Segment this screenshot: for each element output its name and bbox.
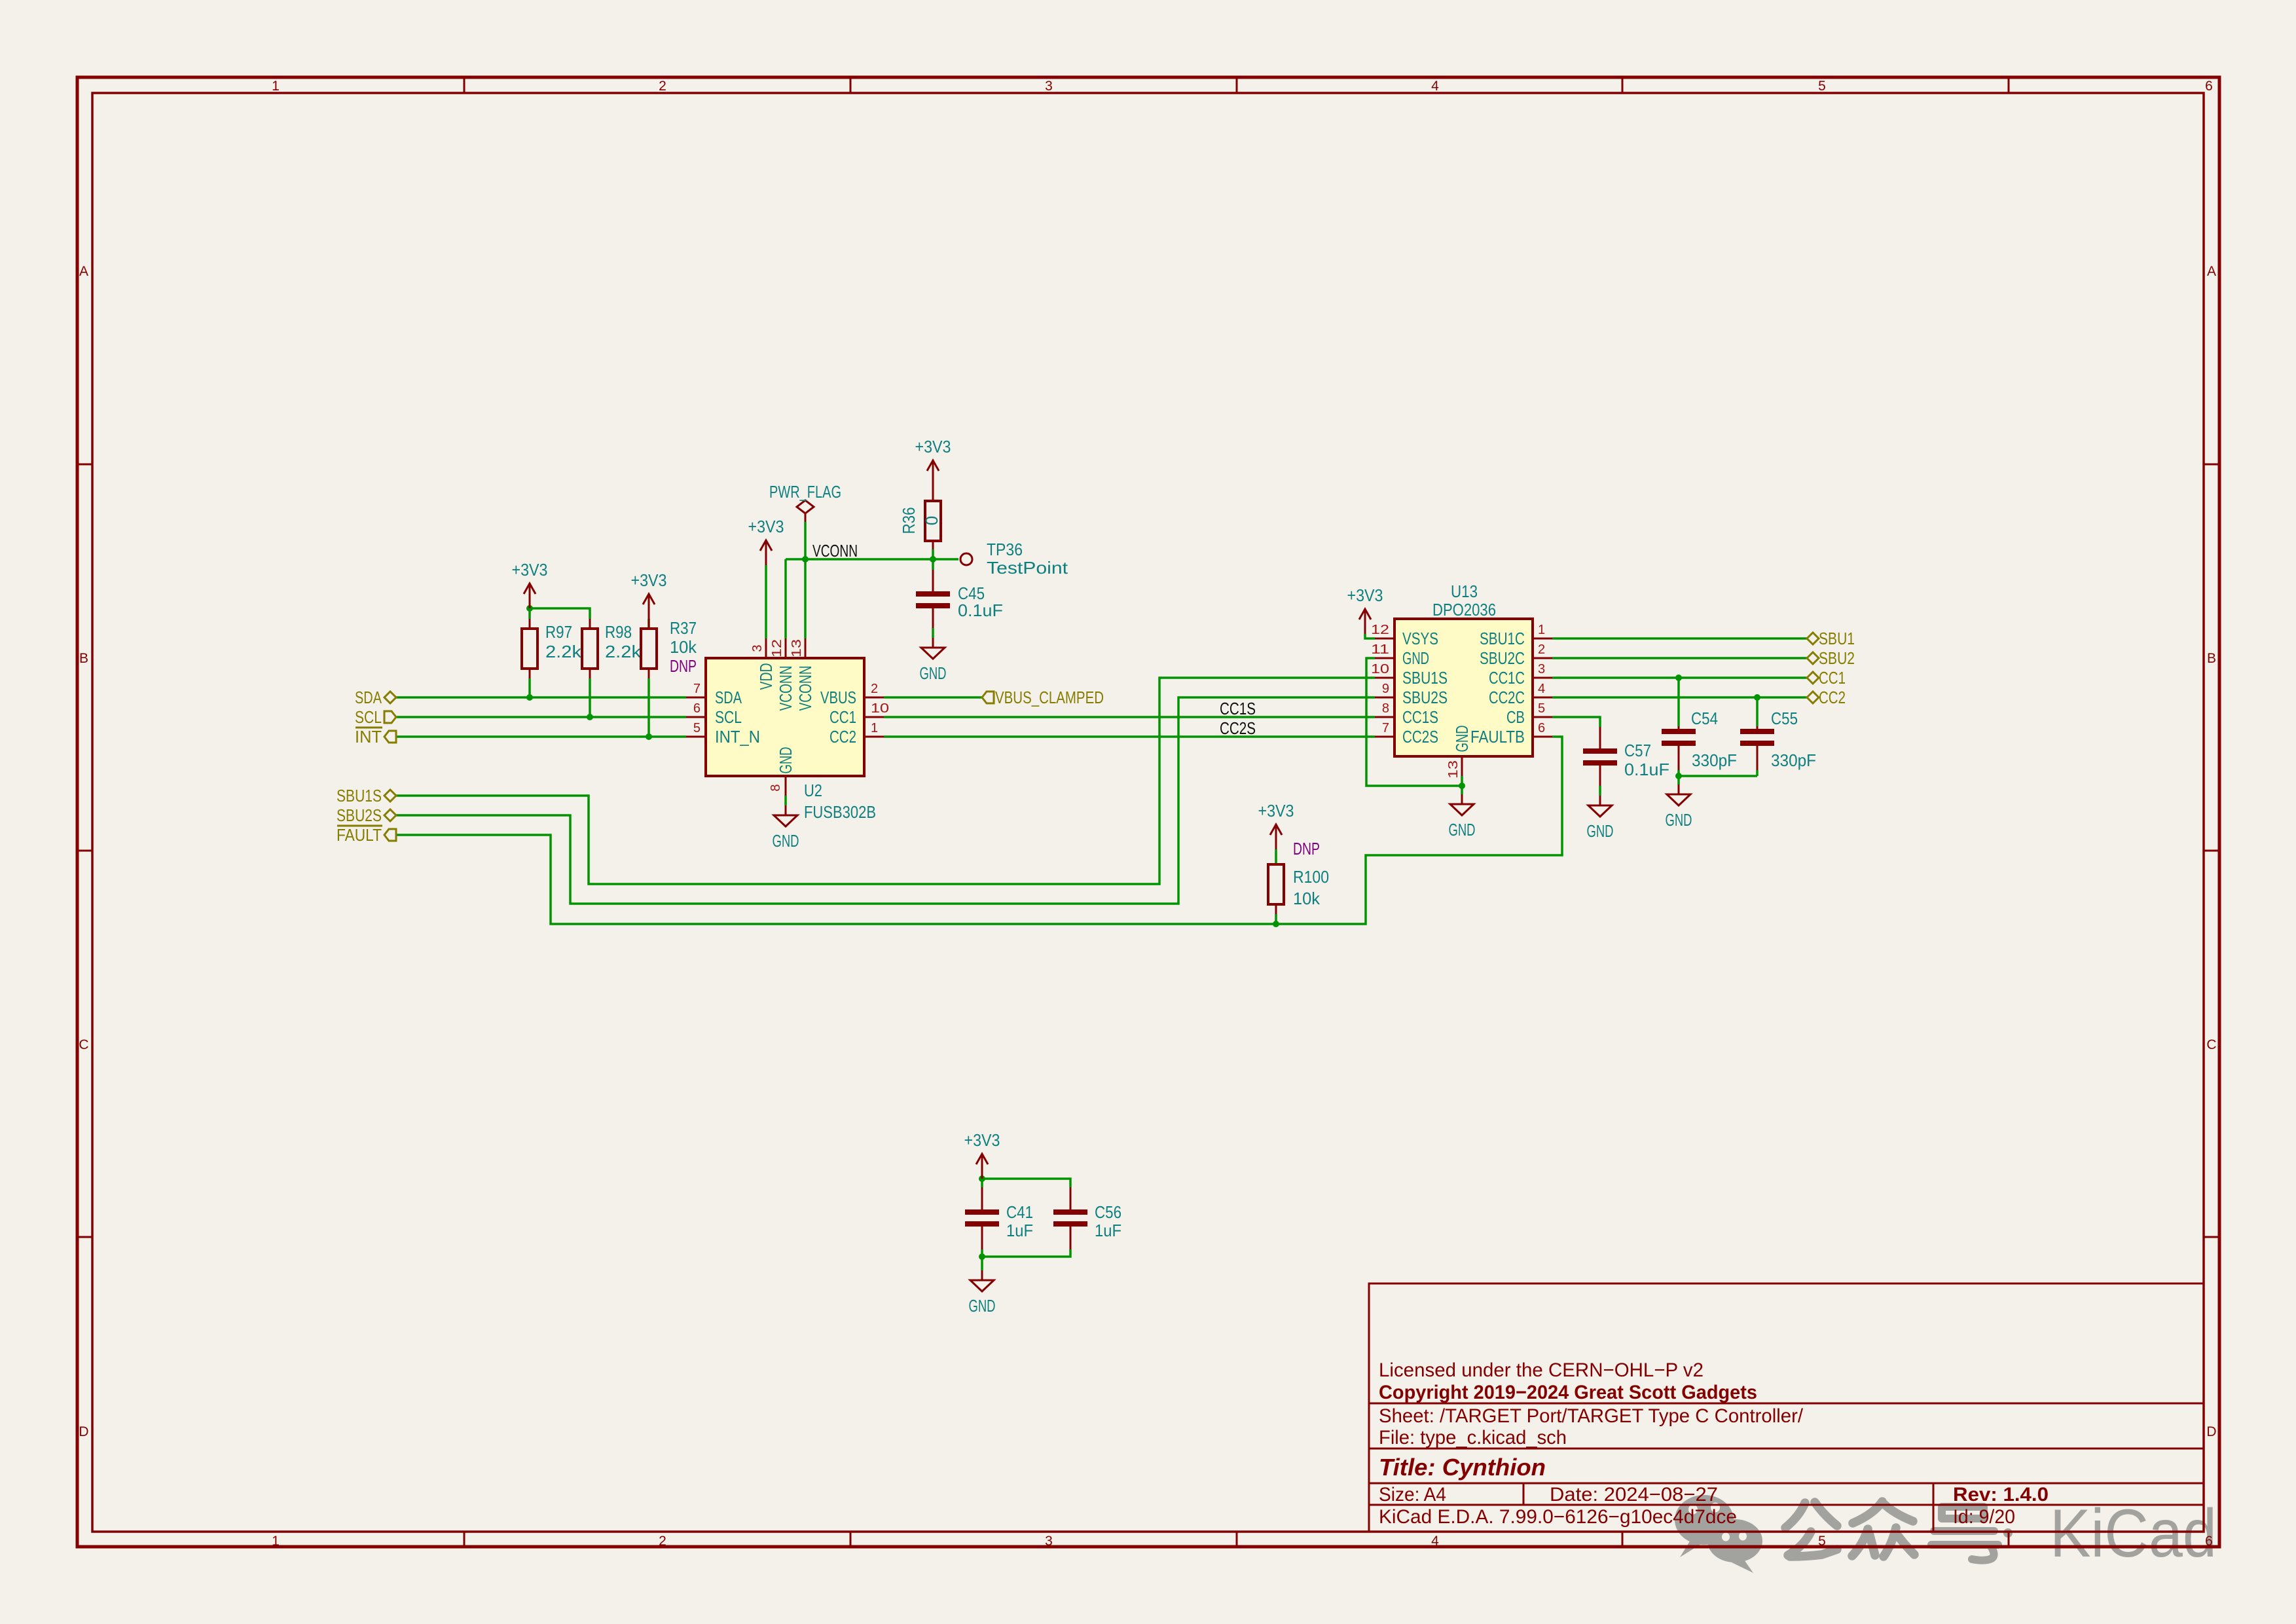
U2 pin 7 SDA	[686, 697, 706, 699]
wire R97 bottom	[528, 678, 531, 697]
capacitor C56 1uF	[1053, 1187, 1121, 1249]
U13 pin 2 SBU2C	[1533, 657, 1552, 659]
capacitor C41 1uF	[965, 1187, 1033, 1249]
ground below C54/C55	[1667, 784, 1690, 805]
wire INT	[396, 735, 686, 738]
svg-text:1: 1	[1538, 623, 1545, 637]
svg-text:CC1C: CC1C	[1489, 668, 1525, 688]
svg-text:CC2: CC2	[829, 727, 856, 747]
svg-text:R98: R98	[605, 622, 632, 642]
power +3V3 at R97	[524, 583, 536, 608]
svg-text:13: 13	[790, 639, 804, 657]
svg-text:C57: C57	[1624, 741, 1651, 760]
capacitor C54 330pF	[1662, 709, 1737, 770]
svg-text:PWR_FLAG: PWR_FLAG	[769, 482, 841, 502]
U13 pin 12 VSYS	[1375, 638, 1394, 640]
svg-text:VSYS: VSYS	[1402, 629, 1438, 648]
hier label VBUS_CLAMPED	[982, 688, 1104, 707]
U13 pin 13 GND	[1461, 756, 1463, 776]
wire R36 bottom	[932, 549, 934, 559]
svg-text:Rev: 1.4.0: Rev: 1.4.0	[1953, 1484, 2049, 1505]
svg-text:Title: Cynthion: Title: Cynthion	[1379, 1454, 1546, 1481]
svg-text:0.1uF: 0.1uF	[958, 600, 1003, 620]
wire CC1S net	[884, 716, 1375, 718]
svg-text:+3V3: +3V3	[964, 1130, 1000, 1150]
wire C55 bottom	[1756, 770, 1758, 776]
svg-text:4: 4	[1431, 1534, 1439, 1549]
svg-text:0.1uF: 0.1uF	[1624, 760, 1669, 779]
power +3V3 at R37	[643, 594, 655, 619]
svg-text:10k: 10k	[670, 637, 697, 657]
svg-text:10k: 10k	[1293, 889, 1321, 908]
wire R100 top	[1275, 849, 1277, 864]
svg-text:C54: C54	[1691, 709, 1718, 728]
svg-text:SBU2S: SBU2S	[1402, 688, 1448, 707]
hier label FAULT (active low)	[337, 825, 396, 845]
svg-text:SCL: SCL	[355, 707, 382, 727]
junction (1949,1411)	[1273, 921, 1279, 927]
wire C41 bottom	[981, 1249, 983, 1270]
svg-text:11: 11	[1371, 642, 1389, 657]
svg-text:FAULTB: FAULTB	[1470, 727, 1525, 747]
svg-text:SDA: SDA	[715, 688, 742, 707]
wire SBU2S route	[396, 697, 1375, 904]
svg-text:VCONN: VCONN	[812, 541, 858, 561]
svg-text:2.2k: 2.2k	[605, 642, 642, 661]
U13 pin 5 CB	[1533, 716, 1552, 718]
wire CC2S net	[884, 735, 1375, 738]
svg-text:2: 2	[659, 1534, 666, 1549]
junction (809,1065)	[526, 694, 533, 701]
watermark	[1675, 1495, 2217, 1573]
svg-text:8: 8	[1382, 701, 1389, 716]
U2 pin 6 SCL	[686, 716, 706, 718]
hier label SDA	[355, 688, 396, 707]
svg-text:2: 2	[1538, 642, 1545, 657]
wire C56 bottom	[982, 1249, 1070, 1257]
svg-text:6: 6	[2205, 1534, 2213, 1549]
resistor R98 2.2k	[582, 619, 642, 678]
svg-text:2: 2	[659, 79, 666, 94]
svg-text:+3V3: +3V3	[1347, 585, 1383, 605]
svg-text:5: 5	[1538, 701, 1545, 716]
svg-text:C41: C41	[1006, 1202, 1033, 1222]
hier label SBU1S	[337, 786, 396, 805]
svg-text:D: D	[2206, 1424, 2216, 1439]
svg-text:GND: GND	[920, 663, 947, 683]
IC U13 DPO2036 body	[1394, 619, 1533, 756]
U2 pin 12 VCONN	[785, 638, 787, 658]
svg-text:B: B	[79, 651, 88, 666]
svg-text:A: A	[2207, 264, 2216, 279]
svg-text:INT_N: INT_N	[715, 727, 760, 747]
U13 pin 8 CC1S	[1375, 716, 1394, 718]
svg-text:CC2S: CC2S	[1402, 727, 1438, 747]
svg-text:VDD: VDD	[756, 663, 776, 690]
svg-text:VBUS: VBUS	[820, 688, 856, 707]
svg-text:12: 12	[770, 639, 784, 657]
wire C41-C56 top	[982, 1179, 1070, 1187]
ground below C41/C56	[970, 1270, 994, 1291]
svg-text:Copyright 2019−2024 Great Scot: Copyright 2019−2024 Great Scott Gadgets	[1379, 1382, 1757, 1403]
svg-text:13: 13	[1446, 760, 1461, 779]
svg-text:SBU1S: SBU1S	[1402, 668, 1448, 688]
svg-text:5: 5	[1818, 79, 1826, 94]
wire C45 bottom	[932, 628, 934, 638]
hier label CC2	[1807, 688, 1846, 707]
svg-text:+3V3: +3V3	[512, 560, 548, 580]
svg-text:C56: C56	[1095, 1202, 1121, 1222]
power +3V3 at R100	[1270, 824, 1282, 849]
junction (809,929)	[526, 605, 533, 612]
svg-text:GND: GND	[776, 747, 795, 774]
wire PWR_FLAG	[804, 522, 807, 559]
svg-text:3: 3	[1538, 662, 1545, 676]
svg-text:6: 6	[693, 701, 701, 716]
wire C41 +3V3	[981, 1179, 983, 1187]
svg-text:9: 9	[1382, 682, 1389, 696]
svg-text:SBU1S: SBU1S	[337, 786, 382, 805]
wire SBU1S route	[396, 678, 1375, 884]
svg-text:Date: 2024−08−27: Date: 2024−08−27	[1550, 1484, 1718, 1505]
svg-text:INT: INT	[355, 727, 382, 747]
junction (2233,1200)	[1459, 783, 1465, 789]
power +3V3 at U2 VDD	[760, 540, 772, 565]
resistor R36 0	[899, 485, 941, 549]
svg-text:CC2S: CC2S	[1220, 718, 1256, 738]
svg-text:SBU2C: SBU2C	[1480, 648, 1525, 668]
svg-text:GND: GND	[969, 1296, 996, 1316]
ground below U13 pin 13	[1450, 794, 1474, 815]
capacitor C55 330pF	[1740, 709, 1816, 770]
svg-text:GND: GND	[1402, 648, 1429, 668]
wire U2 GND	[784, 796, 787, 805]
U13 pin 11 GND	[1375, 657, 1394, 659]
wire U13 pin13 gnd	[1461, 776, 1463, 794]
wire R97-R98 +3V3	[530, 608, 590, 619]
wire VCONN pin12	[784, 559, 787, 638]
svg-text:VBUS_CLAMPED: VBUS_CLAMPED	[995, 688, 1104, 707]
power +3V3 at R36	[927, 460, 939, 485]
svg-text:2.2k: 2.2k	[545, 642, 582, 661]
svg-text:File: type_c.kicad_sch: File: type_c.kicad_sch	[1379, 1427, 1567, 1449]
svg-text:8: 8	[769, 784, 783, 791]
svg-text:VCONN: VCONN	[795, 666, 815, 711]
U2 pin 10 CC1	[864, 716, 884, 718]
svg-text:0: 0	[922, 516, 941, 525]
U13 pin 9 SBU2S	[1375, 697, 1394, 699]
svg-text:A: A	[79, 264, 88, 279]
junction (2684,1065)	[1754, 694, 1760, 701]
hier label CC1	[1807, 668, 1846, 688]
svg-text:CC2C: CC2C	[1489, 688, 1525, 707]
svg-text:SBU2S: SBU2S	[337, 805, 382, 825]
svg-text:C: C	[2206, 1037, 2216, 1052]
junction (1500,1919)	[979, 1253, 985, 1260]
wire SBU1C	[1552, 637, 1807, 640]
svg-text:5: 5	[1818, 1534, 1826, 1549]
svg-text:3: 3	[750, 644, 765, 652]
svg-text:TestPoint: TestPoint	[987, 558, 1068, 578]
wire CC2C	[1552, 696, 1807, 699]
svg-text:DPO2036: DPO2036	[1432, 600, 1496, 619]
svg-text:+3V3: +3V3	[631, 570, 667, 590]
U13 pin 6 FAULTB	[1533, 736, 1552, 738]
svg-text:+3V3: +3V3	[748, 517, 784, 536]
junction (901,1095)	[587, 714, 593, 720]
wire C55 top	[1756, 697, 1758, 726]
wire SCL	[396, 716, 686, 718]
junction (1230,854)	[802, 556, 809, 563]
svg-text:CC1S: CC1S	[1220, 699, 1256, 718]
svg-text:DNP: DNP	[670, 656, 697, 676]
ground below U2	[774, 805, 797, 826]
svg-text:GND: GND	[1452, 726, 1472, 752]
IC U2 FUSB302B body	[706, 658, 864, 776]
capacitor C57 0.1uF	[1583, 727, 1669, 786]
wire VCONN horizontal	[786, 558, 958, 561]
test point TP36	[960, 540, 1068, 578]
U13 pin 3 CC1C	[1533, 677, 1552, 679]
svg-text:3: 3	[1045, 79, 1053, 94]
svg-text:6: 6	[2205, 79, 2213, 94]
hier label SBU2	[1807, 648, 1855, 668]
svg-text:KiCad: KiCad	[2050, 1496, 2217, 1572]
junction (1425,854)	[930, 556, 936, 563]
svg-text:GND: GND	[1587, 821, 1614, 841]
wire R100 bottom	[1275, 914, 1277, 924]
resistor R37 10k DNP	[641, 618, 697, 678]
wire U13 GND loop pin11	[1366, 658, 1462, 786]
svg-text:CC1: CC1	[829, 707, 856, 727]
wire C45 top	[932, 559, 934, 570]
svg-text:330pF: 330pF	[1692, 750, 1737, 770]
hier label SBU1	[1807, 629, 1855, 648]
svg-text:TP36: TP36	[987, 540, 1023, 559]
svg-text:R100: R100	[1293, 867, 1329, 887]
junction (1500,1800)	[979, 1175, 985, 1182]
svg-text:GND: GND	[773, 831, 799, 851]
wire R37 bottom	[647, 678, 650, 737]
U2 pin 5 INT_N	[686, 736, 706, 738]
svg-text:6: 6	[1538, 721, 1545, 735]
hier label SBU2S	[337, 805, 396, 825]
junction (2564,1035)	[1675, 674, 1682, 681]
wire SBU2C	[1552, 657, 1807, 659]
svg-text:7: 7	[693, 682, 701, 696]
resistor R100 10k DNP	[1268, 839, 1329, 914]
svg-text:U13: U13	[1451, 581, 1478, 601]
U13 pin 4 CC2C	[1533, 697, 1552, 699]
svg-text:SBU2: SBU2	[1819, 648, 1855, 668]
svg-text:1: 1	[272, 79, 280, 94]
svg-text:CC1S: CC1S	[1402, 707, 1438, 727]
svg-text:DNP: DNP	[1293, 839, 1320, 858]
junction (2564,1185)	[1675, 773, 1682, 779]
svg-text:R97: R97	[545, 622, 572, 642]
svg-text:1uF: 1uF	[1095, 1221, 1121, 1240]
capacitor C45 0.1uF	[916, 570, 1003, 628]
svg-text:4: 4	[1538, 682, 1545, 696]
wire R98 bottom	[589, 678, 591, 717]
svg-text:1: 1	[272, 1534, 280, 1549]
resistor R97 2.2k	[522, 619, 582, 678]
wire C54 top	[1677, 678, 1680, 726]
power +3V3 at U13 VSYS	[1359, 609, 1371, 634]
svg-text:C: C	[79, 1037, 88, 1052]
svg-text:GND: GND	[1449, 820, 1476, 840]
svg-text:10: 10	[1371, 662, 1389, 676]
U2 pin 8 GND	[785, 776, 787, 796]
U13 pin 10 SBU1S	[1375, 677, 1394, 679]
svg-text:CB: CB	[1506, 707, 1525, 727]
svg-text:U2: U2	[804, 781, 822, 800]
U2 pin 3 VDD	[765, 638, 767, 658]
svg-text:3: 3	[1045, 1534, 1053, 1549]
wire VBUS	[884, 696, 982, 699]
svg-text:C55: C55	[1771, 709, 1798, 728]
U2 pin 2 VBUS	[864, 697, 884, 699]
svg-text:R36: R36	[899, 507, 919, 534]
wire R97 top	[528, 608, 531, 619]
wire R37 top	[647, 619, 650, 629]
U2 pin 1 CC2	[864, 736, 884, 738]
svg-text:GND: GND	[1666, 810, 1692, 830]
svg-text:R37: R37	[670, 618, 697, 638]
svg-text:SDA: SDA	[355, 688, 382, 707]
svg-text:4: 4	[1431, 79, 1439, 94]
svg-text:12: 12	[1371, 623, 1389, 637]
svg-text:SBU1C: SBU1C	[1480, 629, 1525, 648]
wire VDD +3V3	[765, 565, 767, 638]
svg-text:7: 7	[1382, 721, 1389, 735]
svg-text:2: 2	[871, 682, 878, 696]
wire C54 bottom	[1677, 770, 1680, 784]
svg-text:FAULT: FAULT	[337, 825, 382, 845]
svg-text:+3V3: +3V3	[915, 437, 951, 456]
svg-text:+3V3: +3V3	[1258, 801, 1294, 821]
svg-text:KiCad E.D.A. 7.99.0−6126−g10ec: KiCad E.D.A. 7.99.0−6126−g10ec4d7dce	[1379, 1506, 1737, 1528]
svg-text:VCONN: VCONN	[776, 666, 795, 711]
wire C54-C55 gnd	[1679, 775, 1757, 777]
ground below C45	[921, 638, 945, 659]
wire CC1C	[1552, 676, 1807, 679]
wire C57 bottom	[1599, 786, 1601, 796]
wire CB to C57	[1552, 717, 1600, 727]
ground below C57	[1588, 796, 1612, 817]
wire VCONN pin13	[804, 559, 807, 638]
svg-text:D: D	[79, 1424, 88, 1439]
svg-text:SCL: SCL	[715, 707, 742, 727]
svg-text:5: 5	[693, 721, 701, 735]
svg-text:Licensed under the CERN−OHL−P: Licensed under the CERN−OHL−P v2	[1379, 1359, 1704, 1381]
svg-text:CC1: CC1	[1819, 668, 1846, 688]
svg-text:Id: 9/20: Id: 9/20	[1953, 1506, 2015, 1528]
svg-text:1uF: 1uF	[1006, 1221, 1033, 1240]
svg-text:CC2: CC2	[1819, 688, 1846, 707]
hier label SCL	[355, 707, 396, 727]
svg-text:10: 10	[871, 701, 889, 716]
svg-text:FUSB302B: FUSB302B	[804, 802, 876, 822]
wire FAULT route	[396, 737, 1562, 924]
U13 pin 1 SBU1C	[1533, 638, 1552, 640]
U2 pin 13 VCONN	[805, 638, 807, 658]
svg-text:Sheet: /TARGET Port/TARGET Typ: Sheet: /TARGET Port/TARGET Type C Contro…	[1379, 1405, 1804, 1427]
junction (991,1125)	[646, 733, 652, 740]
power flag PWR_FLAG	[769, 482, 841, 522]
svg-text:1: 1	[871, 721, 878, 735]
U13 pin 7 CC2S	[1375, 736, 1394, 738]
wire SDA	[396, 696, 686, 699]
hier label INT (active low)	[355, 727, 396, 747]
svg-text:Size: A4: Size: A4	[1379, 1484, 1446, 1505]
svg-text:B: B	[2207, 651, 2216, 666]
svg-text:SBU1: SBU1	[1819, 629, 1855, 648]
wire U13 +3V3	[1365, 634, 1375, 638]
power +3V3 at C41	[976, 1154, 988, 1179]
svg-text:330pF: 330pF	[1771, 750, 1816, 770]
